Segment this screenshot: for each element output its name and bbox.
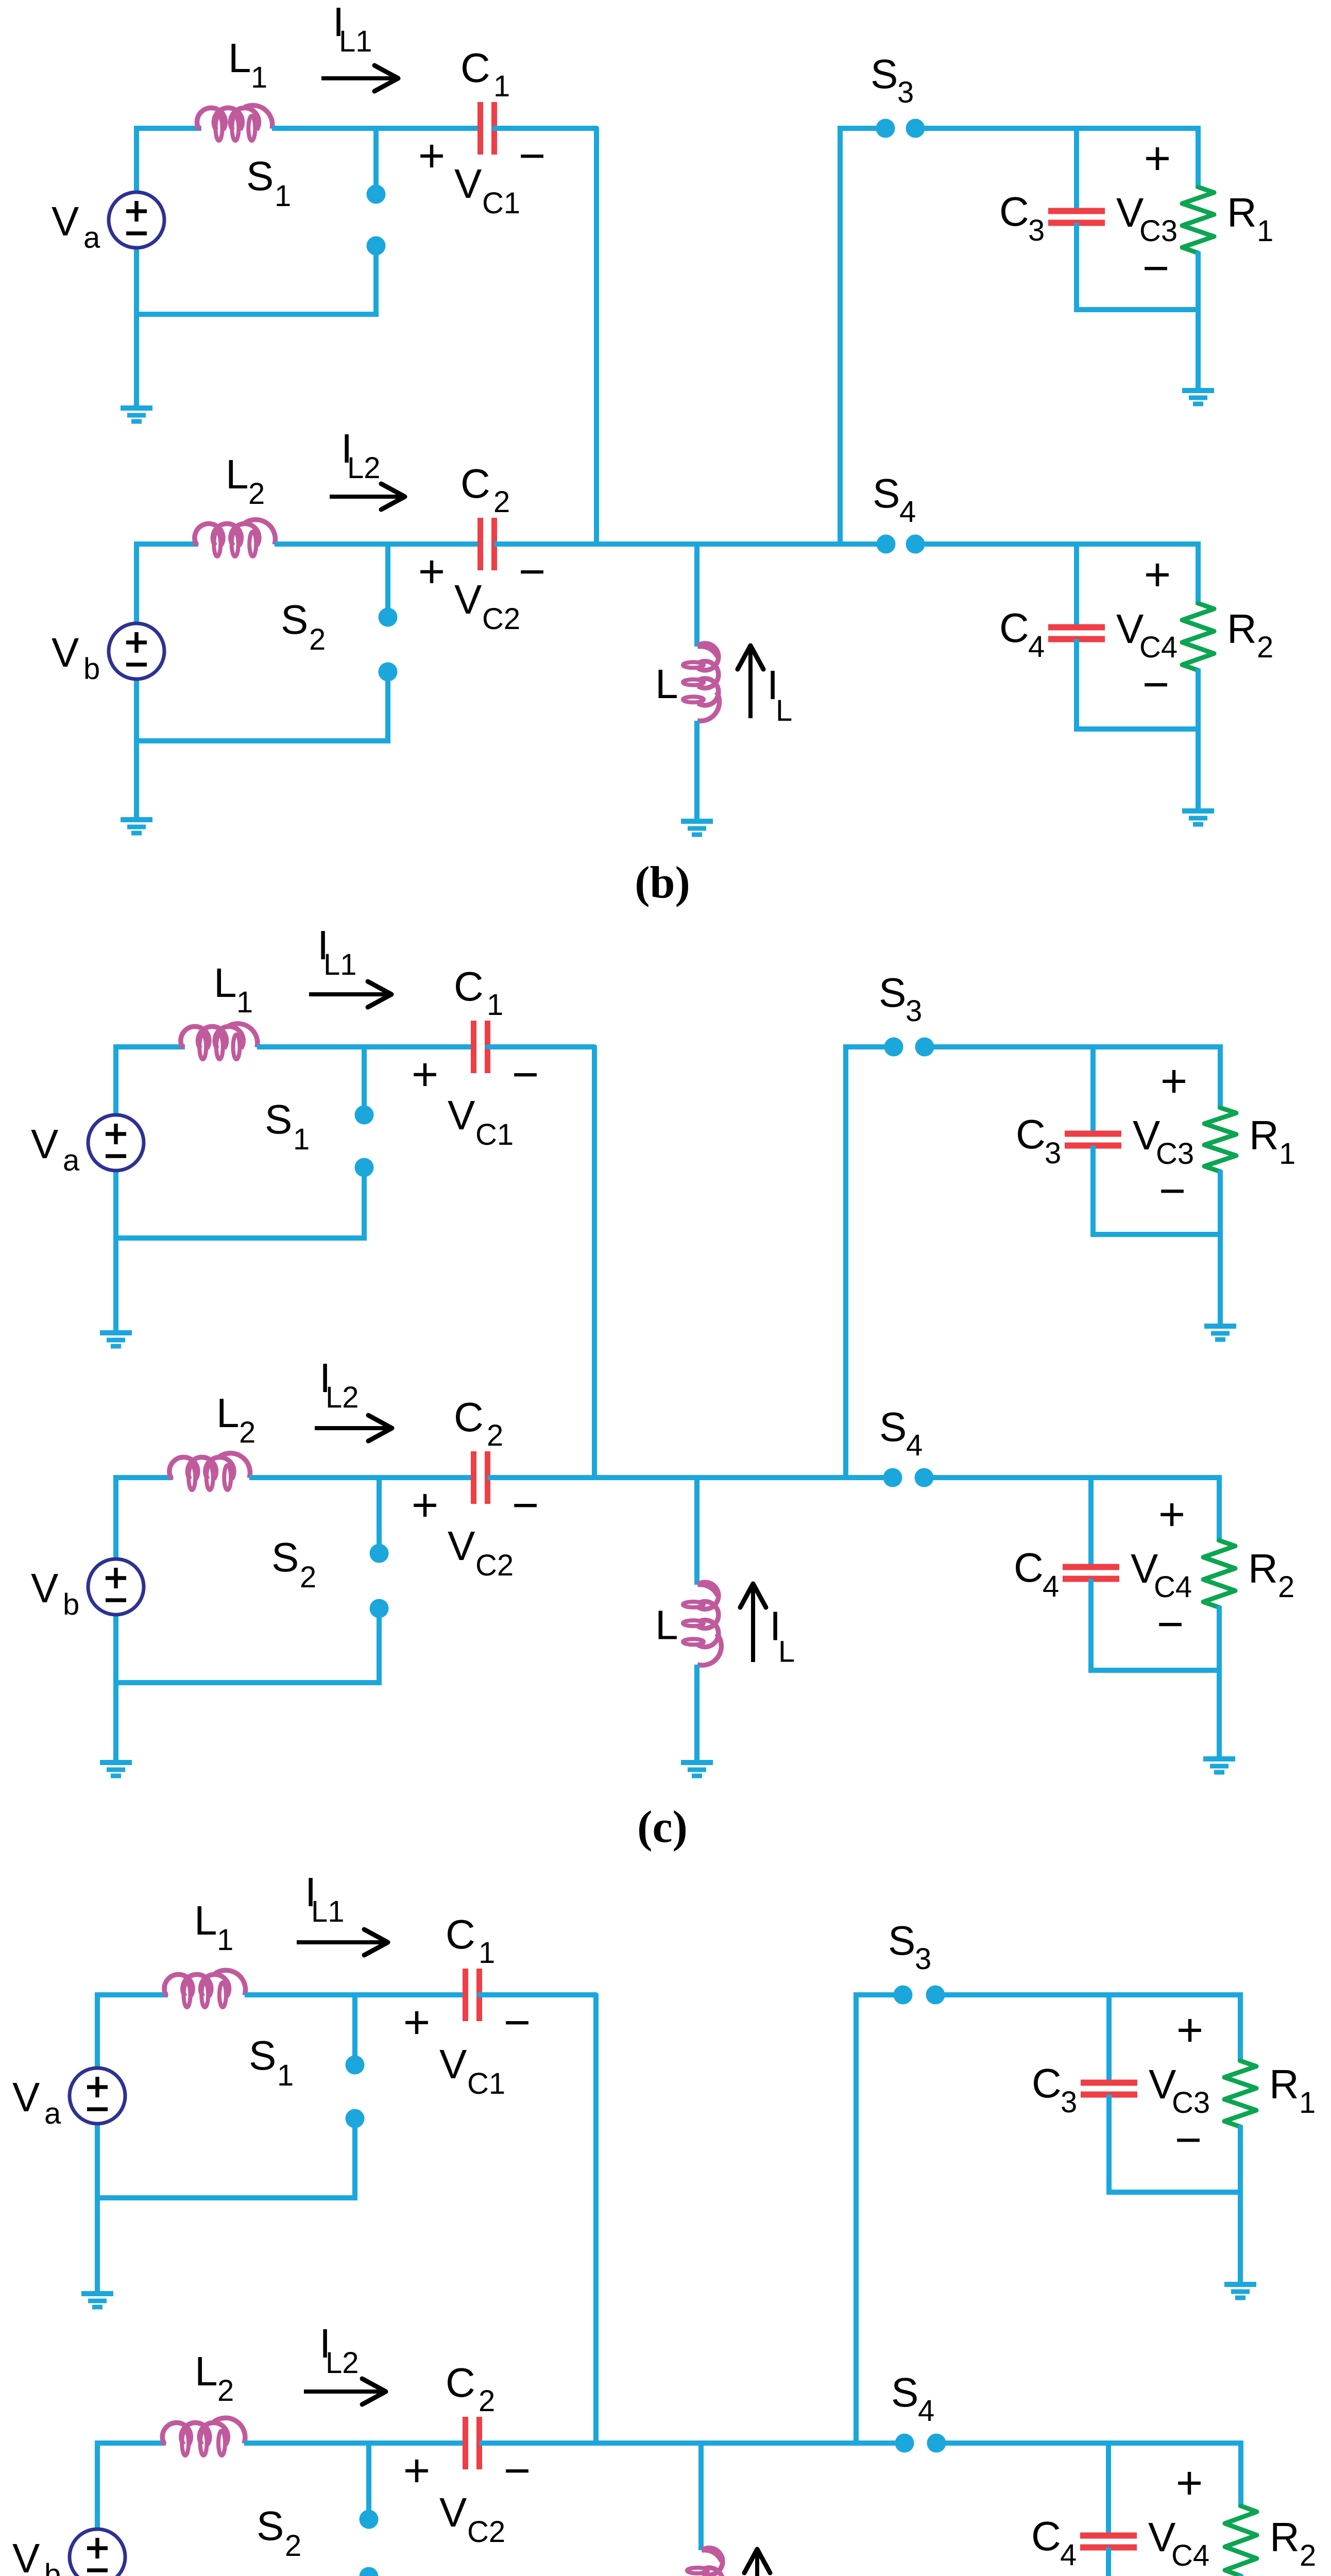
wire Vb rail (c) (113, 1475, 118, 1560)
svg-text:1: 1 (293, 1123, 310, 1156)
switch S4 (c) (883, 1468, 902, 1487)
wire L branch (c) (694, 1478, 699, 1585)
svg-text:L: L (776, 694, 792, 727)
ground R1 (b) (1182, 388, 1214, 393)
svg-text:C: C (1031, 2513, 1061, 2559)
svg-text:b: b (83, 652, 100, 686)
svg-text:C: C (999, 189, 1029, 234)
resistor R2 (b) (1196, 541, 1201, 605)
svg-text:(c): (c) (637, 1802, 688, 1852)
wire bus row left (d) (95, 2441, 166, 2446)
ground R2 (b) (1182, 808, 1214, 814)
svg-text:1: 1 (1279, 1137, 1295, 1171)
current arrow IL1 (c) (309, 992, 387, 996)
svg-text:4: 4 (906, 1429, 923, 1462)
wire S3 vertical link (c) (843, 1044, 848, 1478)
svg-text:C: C (1032, 2060, 1062, 2106)
svg-text:V: V (31, 1565, 59, 1611)
wire C3 drop (c) (1090, 1047, 1096, 1134)
svg-text:V: V (52, 198, 79, 244)
svg-text:a: a (83, 221, 100, 255)
wire C4 drop (d) (1106, 2443, 1111, 2536)
svg-text:+: + (418, 130, 446, 182)
inductor L2 (d) (162, 2422, 191, 2445)
wire S3 row (b) (840, 126, 885, 131)
wire bus row mid (d) (244, 2441, 466, 2446)
svg-text:R: R (1269, 2061, 1299, 2107)
wire top row c1 right + drop to bus (488, 1047, 595, 1478)
wire C3-R1 bottom (d) (1106, 2190, 1240, 2195)
svg-text:1: 1 (487, 988, 503, 1022)
svg-text:L2: L2 (326, 2346, 359, 2380)
ground Vb (b) (121, 817, 152, 822)
svg-text:−: − (1157, 1599, 1184, 1650)
wire top row d1 middle (245, 1992, 466, 1997)
wire Va rail (c) (113, 1044, 118, 1115)
svg-text:2: 2 (487, 1419, 503, 1452)
svg-text:3: 3 (1061, 2086, 1077, 2119)
switch S3 (b) (876, 119, 895, 138)
wire L to ground (c) (694, 1665, 699, 1762)
svg-text:−: − (512, 1480, 539, 1531)
switch S1 (b) (373, 128, 379, 186)
wire bus row left (b) (134, 541, 198, 547)
wire top row b1 right + drop to bus (494, 128, 597, 544)
svg-text:1: 1 (277, 2059, 294, 2092)
capacitor C4 (c) (1063, 1564, 1119, 1570)
wire S2 return (c) (113, 1680, 382, 1685)
voltage source Vb (b) (109, 623, 164, 679)
switch S2 (b) (385, 544, 390, 609)
wire top row d1 right + drop to bus (480, 1995, 596, 2443)
svg-text:C: C (446, 2360, 475, 2405)
svg-text:C1: C1 (467, 2067, 505, 2100)
svg-text:1: 1 (236, 986, 253, 1019)
wire top row c1 left (113, 1044, 185, 1049)
wire C3 drop (b) (1074, 128, 1079, 211)
svg-text:−: − (512, 1049, 539, 1100)
svg-text:C2: C2 (482, 602, 520, 636)
wire bus row right (d) (480, 2441, 905, 2446)
wire L to ground (b) (694, 721, 699, 821)
svg-text:R: R (1227, 606, 1257, 652)
svg-text:C: C (454, 963, 484, 1009)
wire S1 return (c) (113, 1235, 367, 1241)
svg-text:−: − (1142, 243, 1170, 294)
voltage source Va (d) (70, 2068, 125, 2124)
wire bus row mid (b) (275, 541, 481, 547)
svg-text:−: − (519, 546, 546, 598)
wire S1 return (d) (95, 2195, 357, 2200)
wire S2 return (b) (134, 738, 390, 743)
ground Va (d) (81, 2291, 113, 2296)
capacitor C3 (c) (1065, 1131, 1121, 1137)
svg-text:C3: C3 (1156, 1137, 1194, 1171)
svg-text:C: C (446, 1911, 475, 1957)
ground R1 (d) (1224, 2282, 1256, 2287)
svg-text:L: L (778, 1635, 795, 1669)
wire bus row right (b) (494, 541, 886, 547)
svg-text:4: 4 (1043, 1570, 1059, 1603)
svg-text:+: + (1144, 133, 1171, 184)
svg-text:2: 2 (248, 477, 265, 511)
svg-text:1: 1 (1257, 214, 1273, 248)
wire C4 to bottom (b) (1074, 639, 1079, 730)
resistor R2 (c) (1217, 1475, 1222, 1542)
svg-text:S: S (271, 1534, 299, 1580)
wire S1 return (b) (134, 312, 379, 317)
current arrow IL (d) (755, 2553, 759, 2576)
wire bus row right (c) (488, 1475, 893, 1480)
wire S3 row (d) (856, 1992, 903, 1997)
switch S2 (d) (366, 2443, 371, 2511)
svg-text:+: + (1144, 549, 1171, 601)
svg-text:S: S (265, 1096, 292, 1142)
svg-text:2: 2 (479, 2384, 495, 2418)
svg-text:R: R (1270, 2514, 1300, 2560)
svg-text:b: b (44, 2558, 61, 2576)
svg-text:1: 1 (251, 61, 267, 94)
svg-text:+: + (403, 1997, 431, 2048)
inductor L1 (b) (197, 108, 226, 130)
svg-text:2: 2 (300, 1561, 316, 1594)
capacitor C3 (d) (1081, 2080, 1137, 2086)
ground L (b) (681, 819, 713, 824)
resistor R1 (b) (1196, 126, 1201, 189)
svg-text:−: − (504, 2445, 531, 2497)
svg-text:S: S (879, 970, 906, 1015)
svg-text:3: 3 (897, 76, 914, 109)
wire C4-R2 bottom (c) (1088, 1668, 1219, 1673)
svg-text:L: L (655, 661, 678, 707)
svg-text:S: S (888, 1918, 915, 1963)
svg-text:C: C (1016, 1111, 1046, 1157)
wire C3 to bottom (b) (1074, 223, 1079, 310)
wire C4-R2 bottom (b) (1074, 726, 1198, 732)
svg-text:+: + (418, 546, 446, 598)
inductor L2 (c) (169, 1457, 198, 1479)
wire Va rail (b) (134, 126, 139, 193)
svg-text:C1: C1 (475, 1118, 514, 1151)
resistor R2 (d) (1238, 2441, 1243, 2507)
svg-text:+: + (412, 1049, 439, 1100)
svg-text:L: L (214, 960, 237, 1006)
capacitor C1 (b) (477, 102, 483, 155)
svg-text:V: V (448, 1523, 475, 1569)
current arrow IL1 (d) (297, 1940, 384, 1944)
ground L (c) (681, 1760, 713, 1765)
svg-text:R: R (1249, 1112, 1279, 1158)
wire top row c1 middle (257, 1044, 474, 1049)
svg-text:3: 3 (1028, 214, 1045, 247)
wire S3 vertical link (b) (838, 126, 843, 544)
ground R1 (c) (1204, 1324, 1236, 1329)
inductor L2 (b) (195, 523, 223, 546)
svg-text:2: 2 (285, 2529, 301, 2563)
wire C4 to bottom (d) (1106, 2548, 1111, 2576)
svg-text:1: 1 (1299, 2086, 1316, 2120)
svg-text:I: I (774, 2570, 785, 2576)
svg-text:−: − (1159, 1165, 1186, 1217)
svg-text:C: C (1014, 1545, 1044, 1590)
inductor L (d) (702, 2548, 723, 2575)
switch S3 (d) (894, 1986, 913, 2005)
svg-text:−: − (1142, 659, 1170, 710)
svg-text:a: a (44, 2097, 61, 2130)
wire Vb rail (b) (134, 541, 139, 624)
svg-text:1: 1 (493, 70, 510, 103)
svg-text:L: L (228, 35, 251, 81)
svg-text:−: − (504, 1997, 531, 2048)
svg-text:−: − (1175, 2114, 1202, 2166)
svg-text:V: V (454, 161, 482, 207)
capacitor C1 (c) (471, 1021, 476, 1073)
inductor L (b) (698, 643, 719, 670)
svg-text:(b): (b) (635, 858, 690, 908)
wire bus row left (c) (113, 1475, 173, 1480)
wire Vb rail (d) (95, 2441, 100, 2530)
svg-text:4: 4 (1060, 2538, 1077, 2572)
svg-text:1: 1 (275, 179, 291, 213)
wire top row d1 left (95, 1992, 168, 1997)
svg-text:2: 2 (309, 623, 326, 656)
wire C3-R1 bottom (c) (1090, 1232, 1220, 1237)
resistor R1 (d) (1238, 1992, 1243, 2062)
svg-text:2: 2 (1278, 1570, 1294, 1604)
ground Va (b) (121, 405, 152, 411)
voltage source Vb (c) (88, 1559, 144, 1615)
svg-text:L: L (194, 1897, 217, 1943)
voltage source Vb (d) (70, 2529, 125, 2576)
inductor L1 (d) (164, 1974, 193, 1996)
svg-text:L: L (216, 1390, 240, 1436)
svg-text:2: 2 (1300, 2539, 1316, 2572)
svg-text:V: V (454, 577, 482, 622)
wire C3 drop (d) (1106, 1995, 1112, 2083)
svg-text:C: C (454, 1394, 484, 1440)
svg-text:3: 3 (906, 994, 922, 1028)
capacitor C2 (b) (477, 518, 483, 570)
svg-text:L: L (195, 2348, 218, 2394)
svg-text:+: + (403, 2445, 431, 2497)
svg-text:V: V (439, 2041, 467, 2087)
switch S1 (d) (352, 1995, 357, 2057)
svg-text:S: S (891, 2369, 918, 2415)
svg-text:1: 1 (479, 1936, 495, 1970)
wire C4 drop (b) (1074, 544, 1079, 628)
switch S4 (d) (895, 2434, 914, 2453)
svg-text:L: L (226, 451, 249, 497)
ground Va (c) (100, 1330, 132, 1335)
switch S3 (c) (884, 1038, 903, 1057)
svg-text:4: 4 (918, 2394, 934, 2428)
svg-text:+: + (1161, 1056, 1188, 1107)
wire C3-R1 bottom (b) (1074, 307, 1198, 312)
svg-text:V: V (52, 630, 79, 675)
svg-text:C3: C3 (1172, 2086, 1210, 2120)
wire S3 row (c) (846, 1044, 894, 1049)
inductor L1 (c) (181, 1026, 209, 1048)
wire top row b1 left (134, 126, 201, 131)
voltage source Va (b) (109, 192, 164, 248)
current arrow IL2 (d) (304, 2389, 382, 2394)
ground Vb (c) (100, 1760, 132, 1765)
svg-text:4: 4 (899, 495, 916, 529)
svg-text:S: S (871, 51, 898, 97)
svg-text:L2: L2 (347, 451, 381, 485)
wire C3 to bottom (d) (1106, 2095, 1112, 2193)
svg-text:R: R (1248, 1546, 1278, 1591)
svg-text:1: 1 (217, 1923, 233, 1957)
svg-text:V: V (12, 2535, 40, 2576)
wire Va rail (d) (95, 1992, 100, 2069)
capacitor C2 (d) (463, 2417, 468, 2469)
current arrow IL2 (b) (330, 495, 401, 499)
current arrow IL2 (c) (315, 1426, 388, 1430)
svg-text:C: C (460, 461, 490, 506)
svg-text:+: + (1158, 1489, 1186, 1540)
svg-text:4: 4 (1028, 630, 1045, 664)
svg-text:L1: L1 (323, 948, 357, 981)
svg-text:C4: C4 (1139, 631, 1178, 664)
svg-text:2: 2 (1257, 631, 1273, 664)
wire bus row mid (c) (249, 1475, 474, 1480)
svg-text:C2: C2 (467, 2515, 505, 2549)
svg-text:2: 2 (239, 1416, 255, 1449)
svg-text:V: V (12, 2074, 40, 2120)
wire C4 to bottom (c) (1088, 1579, 1094, 1671)
svg-text:L: L (659, 2569, 682, 2576)
svg-text:L2: L2 (326, 1381, 359, 1414)
svg-text:+: + (1176, 2005, 1204, 2056)
svg-text:3: 3 (915, 1942, 931, 1976)
capacitor C3 (b) (1048, 208, 1105, 214)
svg-text:2: 2 (493, 485, 510, 519)
wire C4 drop (c) (1088, 1478, 1094, 1567)
svg-text:a: a (63, 1144, 80, 1177)
svg-text:V: V (448, 1092, 475, 1138)
capacitor C4 (b) (1048, 624, 1105, 631)
svg-text:R: R (1227, 190, 1257, 235)
svg-text:C: C (460, 45, 490, 91)
svg-text:2: 2 (217, 2374, 234, 2408)
current arrow IL1 (b) (321, 76, 394, 80)
svg-text:V: V (31, 1121, 59, 1167)
svg-text:S: S (249, 2032, 276, 2078)
wire L branch (b) (694, 544, 699, 647)
svg-text:+: + (412, 1480, 439, 1531)
svg-text:L: L (655, 1602, 678, 1648)
svg-text:L1: L1 (311, 1895, 345, 1928)
svg-text:b: b (63, 1588, 79, 1621)
svg-text:+: + (1176, 2458, 1203, 2509)
current arrow IL (c) (751, 1588, 755, 1662)
svg-text:C1: C1 (482, 187, 520, 220)
voltage source Va (c) (88, 1115, 144, 1171)
svg-text:S: S (873, 470, 900, 516)
wire C3 to bottom (c) (1090, 1146, 1096, 1235)
svg-text:S: S (246, 153, 274, 199)
svg-text:C2: C2 (475, 1549, 514, 1582)
switch S4 (b) (877, 535, 896, 554)
inductor L (c) (698, 1582, 719, 1609)
wire S3 vertical link (d) (854, 1992, 859, 2443)
svg-text:C4: C4 (1154, 1570, 1192, 1604)
svg-text:C4: C4 (1171, 2539, 1209, 2572)
capacitor C2 (c) (471, 1451, 476, 1504)
svg-text:3: 3 (1045, 1137, 1061, 1170)
switch S1 (c) (362, 1047, 367, 1107)
svg-text:C: C (999, 605, 1029, 651)
svg-text:V: V (439, 2489, 467, 2535)
svg-text:C3: C3 (1139, 214, 1178, 248)
wire L branch (d) (698, 2443, 704, 2550)
svg-text:S: S (281, 597, 308, 642)
svg-text:L1: L1 (339, 25, 372, 58)
capacitor C4 (d) (1080, 2533, 1137, 2539)
ground R2 (c) (1203, 1756, 1235, 1761)
svg-text:S: S (879, 1404, 907, 1450)
svg-text:S: S (257, 2503, 284, 2549)
switch S2 (c) (377, 1478, 382, 1545)
wire top row b1 middle (272, 126, 481, 131)
svg-text:−: − (519, 130, 546, 182)
capacitor C1 (d) (463, 1969, 468, 2021)
resistor R1 (c) (1218, 1044, 1223, 1109)
current arrow IL (b) (748, 650, 753, 718)
